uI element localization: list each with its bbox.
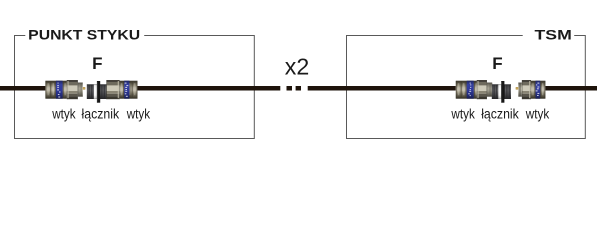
svg-text:F: F bbox=[92, 54, 102, 73]
svg-text:x2: x2 bbox=[285, 54, 310, 80]
svg-text:F: F bbox=[492, 54, 502, 73]
svg-text:TSM: TSM bbox=[535, 27, 572, 43]
svg-text:łącznik: łącznik bbox=[481, 107, 519, 122]
svg-text:PUNKT STYKU: PUNKT STYKU bbox=[28, 27, 140, 43]
svg-text:wtyk: wtyk bbox=[51, 107, 75, 122]
svg-text:wtyk: wtyk bbox=[451, 107, 475, 122]
svg-text:wtyk: wtyk bbox=[126, 107, 150, 122]
svg-text:wtyk: wtyk bbox=[525, 107, 549, 122]
svg-text:łącznik: łącznik bbox=[82, 107, 120, 122]
